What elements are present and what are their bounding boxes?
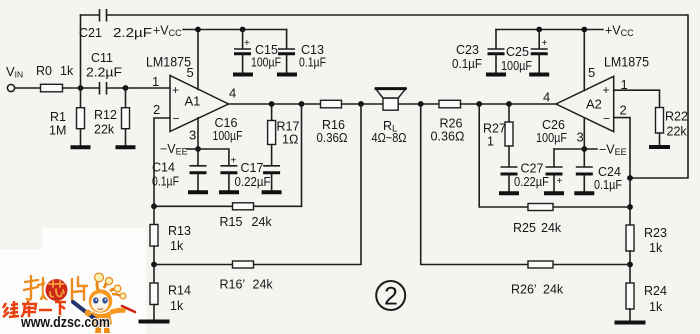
ground below R1: [71, 145, 91, 149]
svg-text:100µF: 100µF: [501, 59, 532, 73]
node pin2/R13/R15: [151, 203, 157, 209]
svg-text:1: 1: [152, 74, 159, 89]
ground below C27: [499, 191, 519, 195]
node speaker left: [358, 101, 364, 107]
node pin3/-VEE: [195, 146, 201, 152]
resistor R23: [626, 225, 634, 283]
svg-text:5: 5: [588, 65, 595, 80]
char xia: [55, 301, 66, 304]
svg-text:1k: 1k: [60, 64, 74, 78]
watermark mascot: [73, 273, 135, 333]
svg-text:0.36Ω: 0.36Ω: [431, 130, 465, 144]
node speaker right: [418, 101, 424, 107]
svg-text:0.1µF: 0.1µF: [299, 56, 326, 70]
svg-text:0.1µF: 0.1µF: [452, 57, 482, 71]
ground below C17: [262, 190, 282, 194]
char ku: [27, 301, 30, 304]
mascot right arm: [110, 308, 126, 315]
wire pin5 A1 to +Vcc: [197, 30, 199, 90]
svg-text:24k: 24k: [543, 283, 564, 297]
node R25 junction: [476, 101, 482, 107]
svg-text:24k: 24k: [541, 221, 562, 235]
capacitor C23: [488, 30, 505, 73]
svg-text:3: 3: [577, 130, 584, 145]
ground below R12: [116, 145, 136, 149]
node pin5/+Vcc: [195, 27, 201, 33]
resistor R0: [41, 84, 63, 92]
resistor R15: [233, 203, 254, 210]
svg-text:C25: C25: [506, 45, 529, 59]
resistor R27: [505, 104, 513, 146]
svg-text:R27: R27: [483, 122, 506, 136]
resistor R16': [233, 261, 254, 268]
svg-text:R17: R17: [277, 120, 300, 134]
svg-text:C24: C24: [598, 165, 621, 179]
watermark red circle logo: [45, 278, 69, 302]
char wei: [3, 303, 6, 308]
mascot red pen right: [122, 306, 135, 312]
svg-text:R16: R16: [322, 118, 345, 132]
wire -VEE A2: [554, 148, 597, 150]
capacitor C13: [278, 30, 295, 73]
mascot eyes: [93, 297, 98, 303]
svg-text:R16’: R16’: [220, 278, 246, 292]
svg-text:100µF: 100µF: [251, 56, 281, 70]
svg-text:R12: R12: [94, 108, 117, 122]
ground below C25: [529, 73, 549, 77]
watermark gold char pian: [72, 277, 87, 301]
svg-text:4: 4: [543, 90, 550, 105]
svg-text:R24: R24: [644, 284, 667, 298]
wire R26 to A2 apex: [461, 103, 557, 105]
capacitor C21: [100, 9, 107, 22]
capacitor C27: [501, 146, 518, 192]
R26' row wire: [421, 104, 630, 265]
svg-text:R25: R25: [513, 221, 536, 235]
wire C11 to A1 pin1: [107, 87, 170, 89]
svg-text:+: +: [542, 38, 548, 49]
svg-text:+: +: [231, 156, 237, 167]
ground below R24: [615, 321, 646, 325]
svg-text:0.1µF: 0.1µF: [594, 178, 622, 192]
mascot mouth: [98, 309, 104, 310]
svg-text:LM1875: LM1875: [146, 55, 191, 70]
svg-text:24k: 24k: [253, 278, 274, 292]
svg-text:R23: R23: [644, 226, 667, 240]
svg-text:R1: R1: [50, 110, 66, 124]
svg-text:C16: C16: [215, 116, 238, 130]
watermark weiku red text (drawn strokes): [3, 301, 66, 317]
resistor R26': [528, 261, 553, 268]
svg-text:24k: 24k: [252, 215, 273, 229]
svg-text:+: +: [603, 83, 610, 97]
svg-text:R26: R26: [440, 117, 463, 131]
capacitor C26 (electrolytic): [546, 149, 563, 192]
capacitor C16 (electrolytic): [220, 166, 237, 191]
node B (after C11): [123, 85, 129, 91]
mascot antenna balls: [95, 273, 104, 282]
wire pin5 A2 up: [583, 30, 585, 91]
svg-text:100µF: 100µF: [213, 129, 243, 143]
node R23/R24: [627, 262, 633, 268]
svg-text:+: +: [557, 176, 563, 187]
svg-text:1M: 1M: [49, 124, 66, 138]
svg-text:C14: C14: [152, 161, 175, 175]
svg-text:−: −: [173, 112, 180, 126]
svg-text:2.2µF: 2.2µF: [86, 66, 122, 80]
svg-text:LM1875: LM1875: [604, 55, 649, 70]
resistor R13: [150, 206, 158, 264]
wire top rail left segment: [81, 14, 100, 16]
svg-text:R26’: R26’: [511, 283, 537, 297]
wire pin3 A2 down: [583, 118, 585, 149]
ground below C14: [188, 190, 208, 194]
node A (input node): [78, 85, 84, 91]
svg-text:R0: R0: [36, 64, 52, 78]
svg-text:4Ω~8Ω: 4Ω~8Ω: [372, 131, 407, 145]
node R27 junction: [506, 101, 512, 107]
wire pin2 A2 down: [614, 118, 630, 178]
resistor R26: [439, 100, 461, 108]
R16' row wire: [154, 104, 361, 265]
capacitor C14: [190, 149, 207, 191]
wire R0 to node A: [63, 87, 100, 89]
node C15 on rail: [240, 27, 246, 33]
resistor R25: [528, 204, 553, 211]
resistor R17: [268, 104, 276, 145]
resistor R14: [150, 265, 158, 320]
resistor R22: [656, 108, 664, 146]
op-amp A2: [556, 76, 614, 131]
R15 row wire: [154, 205, 302, 207]
ground below R14: [139, 320, 170, 324]
R25 row wire: [479, 104, 630, 207]
svg-text:C11: C11: [91, 51, 113, 65]
svg-text:R15: R15: [220, 215, 243, 229]
circled figure number 2: [376, 281, 405, 311]
ground below C16: [219, 190, 239, 194]
svg-text:C17: C17: [241, 161, 264, 175]
svg-text:www.dzsc.com: www.dzsc.com: [20, 315, 110, 331]
resistor R24: [626, 283, 634, 320]
ground below C15: [233, 73, 253, 77]
svg-text:100µF: 100µF: [536, 131, 567, 145]
svg-text:0.22µF: 0.22µF: [235, 175, 271, 189]
mascot head ring: [89, 289, 113, 313]
svg-text:+: +: [172, 83, 179, 97]
svg-text:1k: 1k: [170, 239, 184, 253]
wire top rail to right corner: [107, 15, 688, 178]
svg-text:1k: 1k: [649, 300, 663, 314]
svg-text:1: 1: [487, 135, 494, 149]
mascot left hand: [85, 310, 92, 317]
+Vcc rail right: [496, 29, 603, 31]
wire pin1 A2 to R22: [614, 90, 660, 107]
node feedback junction: [299, 101, 305, 107]
svg-text:A1: A1: [185, 94, 201, 109]
svg-text:2: 2: [384, 283, 398, 311]
wire speaker to R26: [398, 103, 439, 105]
mascot dark pen: [73, 302, 95, 319]
node pin3 A2: [581, 146, 587, 152]
wire -VEE node to C16 corner: [198, 149, 229, 165]
capacitor C11: [100, 82, 107, 95]
capacitor C15: [234, 30, 251, 73]
wire node A up to top rail: [80, 15, 82, 88]
svg-text:1k: 1k: [170, 299, 184, 313]
wire pin3 A1 down: [197, 118, 199, 149]
node C25 on rail: [536, 27, 542, 33]
+Vcc rail left: [183, 29, 287, 31]
svg-text:A2: A2: [586, 97, 602, 112]
ground below R22: [649, 145, 670, 149]
mascot body: [91, 311, 112, 327]
svg-text:R22: R22: [665, 110, 688, 124]
input terminal VIN: [7, 84, 14, 91]
svg-text:0.1µF: 0.1µF: [152, 175, 179, 189]
resistor R16: [321, 100, 342, 108]
svg-text:1Ω: 1Ω: [282, 133, 298, 147]
svg-text:2: 2: [620, 103, 627, 118]
watermark xin glyph in circle: [49, 281, 64, 297]
svg-text:5: 5: [187, 65, 194, 80]
wire -VEE label to node: [187, 148, 198, 150]
resistor R12: [122, 88, 130, 146]
node R25 row: [627, 204, 633, 210]
mascot legs: [95, 325, 101, 333]
svg-text:22k: 22k: [667, 125, 688, 139]
ground below C23: [486, 73, 506, 77]
svg-text:C26: C26: [542, 118, 565, 132]
svg-text:R13: R13: [168, 224, 191, 238]
svg-text:0.36Ω: 0.36Ω: [317, 131, 348, 145]
char yi: [39, 309, 52, 312]
svg-text:4: 4: [229, 86, 236, 101]
speaker RL: [375, 89, 407, 111]
node pin5 A2: [581, 27, 587, 33]
mascot face: [91, 293, 109, 311]
svg-text:−: −: [603, 112, 610, 126]
svg-text:1k: 1k: [649, 241, 663, 255]
watermark white box: [0, 228, 146, 334]
svg-text:R14: R14: [168, 284, 191, 298]
right rail down: [629, 178, 631, 225]
resistor R1: [77, 88, 85, 146]
node R13/R14/R16': [151, 262, 157, 268]
capacitor C24: [576, 149, 593, 192]
watermark gold char zhao: [24, 276, 50, 300]
svg-text:+: +: [244, 38, 250, 49]
wire input to R0: [15, 87, 41, 89]
svg-text:C23: C23: [456, 43, 479, 57]
svg-text:2: 2: [153, 102, 160, 117]
capacitor C17: [263, 145, 280, 191]
wire pin2 A1 stub: [154, 118, 170, 206]
ground below C24: [574, 191, 594, 195]
output line A1: [229, 103, 321, 105]
op-amp A1: [170, 76, 229, 132]
svg-text:22k: 22k: [94, 123, 115, 137]
capacitor C25: [531, 30, 548, 73]
svg-text:C27: C27: [521, 162, 544, 176]
wire R16 to speaker: [342, 103, 384, 105]
node R17 junction: [269, 101, 275, 107]
node pin2/feedback: [627, 175, 633, 181]
svg-text:C21: C21: [79, 26, 102, 40]
ground below C13: [277, 73, 297, 77]
svg-text:2.2µF: 2.2µF: [113, 26, 152, 40]
svg-text:0.22µF: 0.22µF: [514, 175, 549, 189]
svg-text:3: 3: [189, 128, 196, 143]
mascot antenna stalks: [97, 280, 98, 290]
feedback wire A1 (R15 row riser): [301, 104, 303, 206]
ground below C26: [544, 191, 564, 195]
